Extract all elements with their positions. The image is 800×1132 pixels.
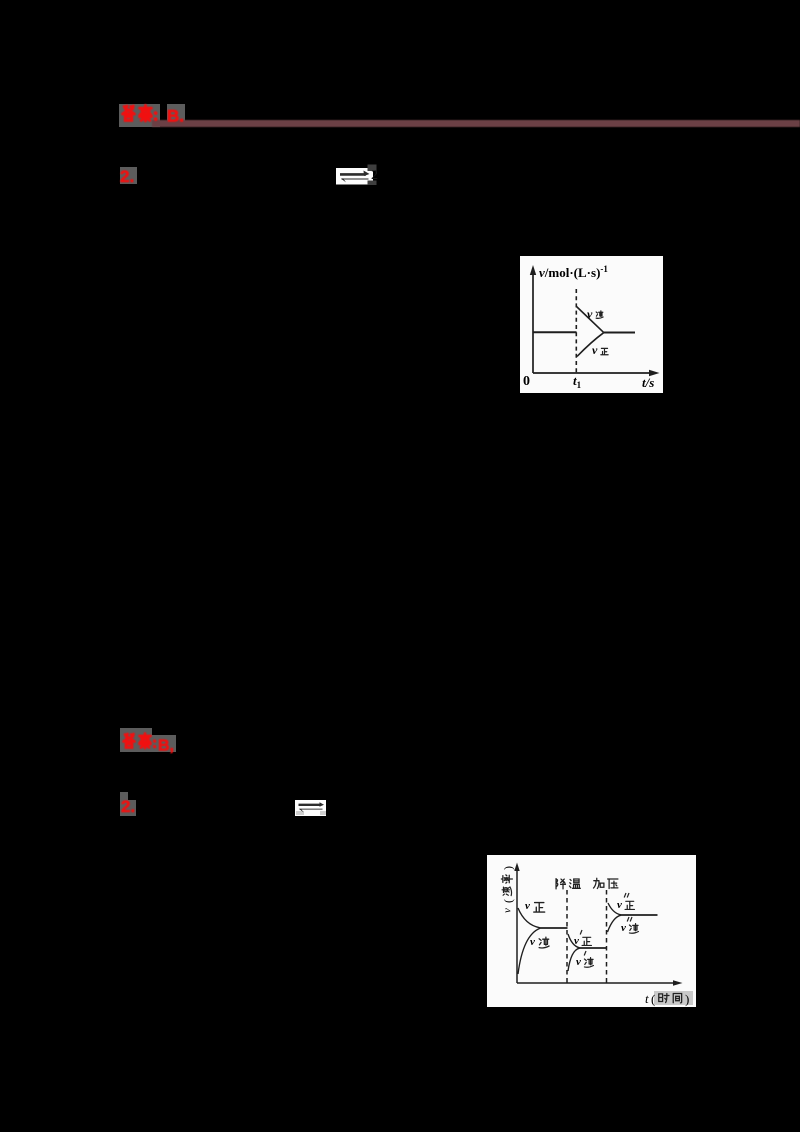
svg-text:B.: B. bbox=[167, 107, 184, 126]
seg1 curves bbox=[518, 908, 540, 928]
v''正 seg3 bbox=[624, 893, 629, 898]
x axis bbox=[533, 372, 652, 374]
seg2 curves bbox=[568, 934, 580, 948]
svg-text:2.: 2. bbox=[121, 797, 135, 816]
svg-text:v: v bbox=[587, 307, 593, 321]
svg-text:v: v bbox=[621, 922, 626, 934]
item 2 marker (red "2." on gray) bbox=[120, 167, 137, 184]
加压 bbox=[593, 878, 617, 888]
svg-text:2.: 2. bbox=[120, 167, 134, 185]
v_zheng label bbox=[592, 343, 608, 357]
t(时间) bottom label bbox=[654, 991, 693, 1005]
maroon rule line bbox=[152, 120, 800, 127]
dashed t1 line bbox=[575, 289, 577, 373]
svg-text:t/s: t/s bbox=[642, 375, 654, 390]
v_ni label bbox=[587, 307, 603, 321]
svg-text:v: v bbox=[592, 343, 598, 357]
answer highlight boxes bbox=[119, 104, 160, 127]
v'逆 seg2 bbox=[584, 951, 586, 956]
svg-text:(: ( bbox=[501, 899, 515, 903]
svg-text:): ) bbox=[501, 866, 515, 870]
svg-text:v/mol·(L·s)-1: v/mol·(L·s)-1 bbox=[539, 264, 608, 280]
svg-text:v: v bbox=[525, 900, 530, 912]
equilibrium arrow box 1 bbox=[336, 164, 380, 186]
svg-text:0: 0 bbox=[523, 374, 530, 389]
item 2 marker section 2 bbox=[120, 792, 128, 800]
svg-text:t: t bbox=[645, 991, 649, 1006]
shared CJK glyph symbol defs bbox=[0, 0, 1, 1]
svg-text:): ) bbox=[685, 992, 689, 1007]
svg-text:v: v bbox=[574, 935, 579, 947]
y axis bbox=[516, 869, 518, 983]
svg-text:v: v bbox=[576, 956, 581, 968]
svg-text:v: v bbox=[502, 908, 514, 913]
rotated y label: v(速率) bbox=[501, 866, 515, 913]
initial rate flat bbox=[533, 331, 577, 333]
svg-text:B,: B, bbox=[158, 738, 174, 755]
seg3 curves bbox=[608, 903, 621, 915]
svg-text:(: ( bbox=[651, 992, 655, 1007]
svg-text:v: v bbox=[617, 899, 622, 911]
v''逆 seg3 bbox=[627, 917, 632, 922]
y axis bbox=[532, 272, 534, 373]
final flat bbox=[604, 332, 636, 334]
red answer text 1 bbox=[118, 104, 190, 126]
red answer text 2 bbox=[119, 731, 179, 757]
faint 2 after box bbox=[371, 168, 378, 184]
upper curve bbox=[577, 307, 604, 333]
svg-text:v: v bbox=[530, 936, 535, 948]
x axis bbox=[517, 982, 675, 984]
equilibrium arrow box 2 bbox=[295, 800, 327, 816]
answer highlight 2 bbox=[120, 728, 152, 752]
降温 bbox=[556, 879, 580, 889]
dashed lines bbox=[566, 890, 568, 983]
lower curve bbox=[577, 333, 604, 357]
v'正 seg2 bbox=[580, 930, 582, 935]
